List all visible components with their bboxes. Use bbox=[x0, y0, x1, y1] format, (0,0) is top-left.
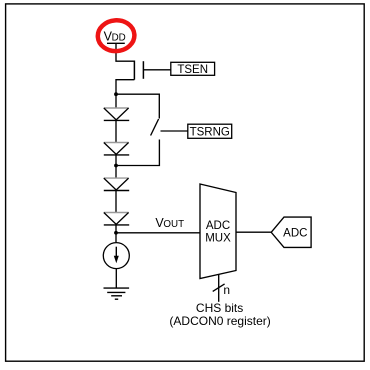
TSEN label box bbox=[171, 62, 215, 76]
annotation red ellipse around VDD bbox=[97, 19, 136, 52]
wire MUX to ADC tag bbox=[236, 231, 271, 233]
diode D1 bbox=[104, 108, 129, 120]
node VOUT junction bbox=[114, 231, 118, 235]
ADC MUX trapezoid bbox=[200, 184, 236, 279]
wire VDD to transistor source bbox=[116, 43, 134, 61]
transistor (TSEN-controlled MOSFET) bbox=[134, 61, 170, 80]
svg-text:TSEN: TSEN bbox=[177, 64, 208, 76]
svg-text:DD: DD bbox=[112, 32, 126, 43]
svg-text:ADC: ADC bbox=[283, 227, 307, 239]
svg-text:(ADCON0 register): (ADCON0 register) bbox=[169, 314, 270, 328]
svg-text:n: n bbox=[223, 283, 230, 297]
wire D2 to D3 bbox=[115, 155, 117, 178]
wire switch bottom to diode chain bbox=[116, 140, 159, 166]
junction below drain bbox=[114, 92, 118, 96]
wire current source to ground bbox=[115, 269, 117, 288]
diode D3 bbox=[104, 178, 129, 190]
wire D1 to D2 bbox=[115, 120, 117, 142]
VDD power rail bbox=[104, 29, 126, 43]
svg-text:MUX: MUX bbox=[205, 233, 231, 245]
wire D4 to current source bbox=[115, 225, 117, 242]
TSRNG label box bbox=[188, 124, 232, 138]
junction of bypass return bbox=[114, 164, 118, 168]
svg-text:OUT: OUT bbox=[163, 219, 184, 230]
svg-text:TSRNG: TSRNG bbox=[190, 127, 230, 139]
switch (TSRNG bypass) bbox=[151, 119, 159, 136]
wire transistor drain down bbox=[116, 80, 134, 108]
ADC output tag bbox=[271, 217, 311, 247]
diode D2 bbox=[104, 143, 129, 155]
svg-text:ADC: ADC bbox=[206, 220, 230, 232]
wire switch to TSRNG box bbox=[161, 130, 188, 132]
CHS bus (n bits) bbox=[213, 274, 230, 301]
node VOUT label bbox=[155, 216, 184, 230]
current source bbox=[103, 243, 129, 269]
wire VOUT to ADC MUX bbox=[116, 232, 200, 234]
wire to switch top bbox=[116, 94, 159, 118]
svg-text:CHS bits: CHS bits bbox=[196, 301, 243, 315]
diode D4 bbox=[104, 213, 129, 225]
wire D3 to D4 bbox=[115, 191, 117, 213]
ground bbox=[104, 288, 130, 299]
